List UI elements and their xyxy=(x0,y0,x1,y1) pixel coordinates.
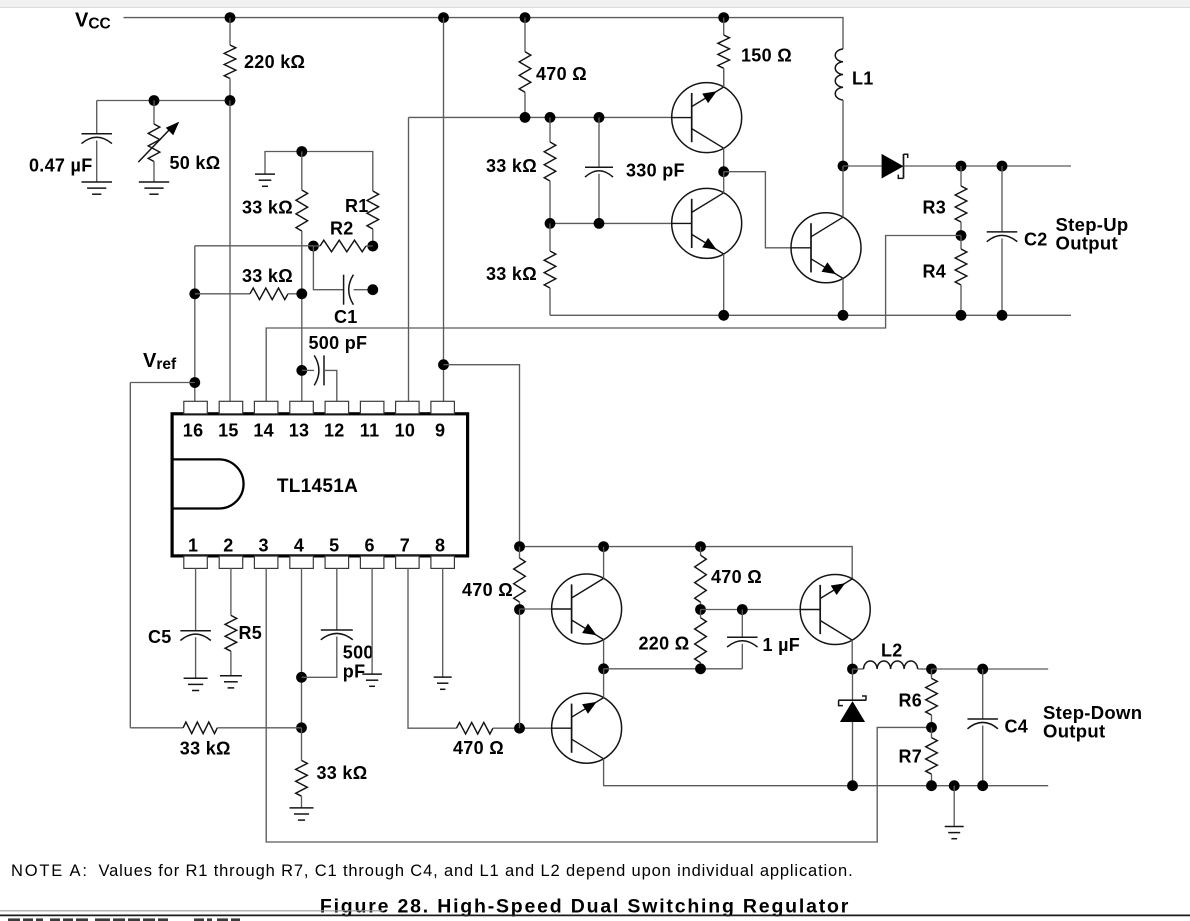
inductor L1 xyxy=(835,49,843,100)
junction Vref xyxy=(189,377,200,388)
wire R6 bottom lead xyxy=(931,715,933,727)
resistor R1 xyxy=(367,191,379,229)
junction on VCC at 220k xyxy=(225,12,236,23)
wire C1 right lead xyxy=(354,289,373,291)
wire C5 to ground xyxy=(195,637,197,678)
wire ground stub step-down xyxy=(953,786,955,826)
svg-text:C1: C1 xyxy=(334,307,358,327)
wire step-down top rail xyxy=(520,547,853,579)
junction pin4/500pF xyxy=(296,672,307,683)
svg-text:470 Ω: 470 Ω xyxy=(711,567,762,587)
svg-text:7: 7 xyxy=(400,536,410,556)
wire R7 bottom lead xyxy=(931,774,933,786)
svg-text:220 Ω: 220 Ω xyxy=(639,634,690,654)
wire R3 top lead xyxy=(960,166,962,186)
wire Q1 emitter stub xyxy=(723,68,725,87)
svg-text:330 pF: 330 pF xyxy=(626,161,685,181)
wire 470L top lead xyxy=(519,547,521,558)
svg-text:15: 15 xyxy=(218,421,239,441)
svg-text:C5: C5 xyxy=(148,627,172,647)
label 220 Ohm xyxy=(639,634,690,654)
junction 500pF upper left xyxy=(296,365,307,376)
wire 50k to ground xyxy=(153,162,155,183)
label 470 Ohm left vertical xyxy=(462,580,513,600)
resistor 33 kOhm horizontal xyxy=(250,288,288,300)
wire 33k horiz left stub xyxy=(195,293,250,295)
junction rail x519 xyxy=(514,541,525,552)
wire pin4 riser xyxy=(301,568,303,727)
figure caption xyxy=(320,895,850,917)
junction R2 right xyxy=(367,241,378,252)
wire Q3 collector stub xyxy=(842,166,844,217)
junction 470-2 bottom xyxy=(695,604,706,615)
resistor 470 Ohm left vertical xyxy=(514,558,526,602)
label 33 kOhm left column xyxy=(242,198,293,218)
wire 33k upper top lead xyxy=(549,117,551,142)
wire ground link to R1 top xyxy=(265,152,373,192)
wire pin5 riser xyxy=(336,568,338,630)
wire pin9 riser xyxy=(443,18,445,402)
wire C4 top lead xyxy=(982,669,984,719)
wire R2 right stub xyxy=(366,245,373,247)
resistor R5 xyxy=(225,615,237,651)
label 33 kOhm bottom-left xyxy=(180,739,231,759)
svg-text:2: 2 xyxy=(223,536,233,556)
inductor L2 xyxy=(864,661,918,669)
IC bottom pin numbers xyxy=(188,536,445,556)
junction R3 top xyxy=(956,161,967,172)
wire pin3 riser and feedback to R6R7 xyxy=(266,568,931,842)
ground step-down output xyxy=(945,827,964,839)
ground below pin8 xyxy=(434,677,452,689)
svg-text:8: 8 xyxy=(435,536,445,556)
wire 500pF upper right lead xyxy=(324,370,337,401)
IC bottom pin boxes xyxy=(184,556,455,568)
label 330 pF xyxy=(626,161,685,181)
junction T4 emitter node xyxy=(598,663,609,674)
junction rail C2 xyxy=(997,310,1008,321)
junction C1 right xyxy=(367,284,378,295)
junction 33k col top xyxy=(296,146,307,157)
svg-text:Vref: Vref xyxy=(143,350,177,373)
resistor 33 kOhm bottom-left xyxy=(183,722,217,734)
junction 330pF / line117 xyxy=(594,112,605,123)
wire Q1 collector to node xyxy=(723,148,725,172)
capacitor C1 xyxy=(344,275,354,305)
wire 33k horiz right stub xyxy=(288,293,302,295)
wire 1uF top lead xyxy=(741,610,743,638)
svg-text:3: 3 xyxy=(259,536,269,556)
label L1 xyxy=(852,69,874,89)
wire Q1Q2 node to Q3 base xyxy=(724,172,791,248)
svg-text:9: 9 xyxy=(435,421,445,441)
resistor 33 kOhm lower xyxy=(544,251,556,288)
transistor T6 xyxy=(800,575,870,645)
net label VCC xyxy=(75,10,111,33)
wire Q3 emitter to rail xyxy=(842,278,844,315)
clipped next-line text fragments xyxy=(8,918,240,921)
resistor R2 xyxy=(320,240,366,252)
ground below 0.47uF xyxy=(82,182,113,194)
wire 220 top lead xyxy=(700,610,702,618)
wire 50k top lead xyxy=(153,101,155,125)
svg-text:33 kΩ: 33 kΩ xyxy=(486,264,537,284)
resistor 470 Ohm mid vertical xyxy=(695,555,707,602)
svg-text:500: 500 xyxy=(343,643,374,663)
label R3 xyxy=(923,198,947,218)
junction bottom rail C4 xyxy=(977,780,988,791)
resistor R7 xyxy=(926,738,938,775)
wire pin6 riser xyxy=(371,568,373,673)
label 0.47 uF xyxy=(29,156,93,176)
ground upper-left xyxy=(255,174,275,186)
svg-text:33 kΩ: 33 kΩ xyxy=(242,198,293,218)
capacitor C5 xyxy=(180,631,211,641)
wire C4 bottom lead xyxy=(982,726,984,786)
transistor Q2 xyxy=(672,188,742,258)
wire R5 to ground xyxy=(230,651,232,676)
junction rail Q3 emitter xyxy=(838,310,849,321)
wire step-up bottom rail xyxy=(550,314,1071,316)
svg-text:R5: R5 xyxy=(239,623,263,643)
label 1 uF xyxy=(763,635,801,655)
junction R2 left xyxy=(308,241,319,252)
wire R1 bottom lead xyxy=(372,229,374,246)
wire 150ohm to Q1 xyxy=(723,68,725,87)
wire T4 collector stub xyxy=(603,547,605,579)
svg-text:R3: R3 xyxy=(923,198,947,218)
wire 33k upper bottom lead xyxy=(549,181,551,223)
svg-text:R1: R1 xyxy=(345,196,369,216)
svg-text:10: 10 xyxy=(395,421,416,441)
capacitor C4 xyxy=(967,719,998,729)
svg-text:33 kΩ: 33 kΩ xyxy=(317,763,368,783)
ground below pin6 xyxy=(362,674,382,686)
junction 1uF top xyxy=(737,604,748,615)
label 33 kOhm lower xyxy=(486,264,537,284)
label C1 xyxy=(334,307,358,327)
svg-text:50 kΩ: 50 kΩ xyxy=(170,153,221,173)
wire 470-2 top lead xyxy=(700,547,702,556)
svg-text:1: 1 xyxy=(188,536,198,556)
junction L2 right node xyxy=(926,664,937,675)
wire 500pF lower to pin4 node xyxy=(302,637,337,678)
label R1 xyxy=(345,196,369,216)
net label Vref xyxy=(143,350,177,373)
wire left riser to 33k xyxy=(129,383,131,728)
wire VCC rail xyxy=(124,18,844,49)
svg-text:33 kΩ: 33 kΩ xyxy=(242,266,293,286)
svg-text:Figure 28. High-Speed Dual Swi: Figure 28. High-Speed Dual Switching Reg… xyxy=(320,895,850,917)
wire 330pF bottom lead xyxy=(598,174,600,224)
svg-text:1 µF: 1 µF xyxy=(763,635,801,655)
wire D2 anode lead xyxy=(852,722,854,786)
junction 33k horiz left xyxy=(189,288,200,299)
wire 1uF bottom lead xyxy=(741,644,743,669)
wire pin8 riser xyxy=(442,568,444,676)
diode D2 (schottky catch) xyxy=(838,696,866,722)
wire T6 base line xyxy=(701,609,801,611)
junction 470ohm / line117 xyxy=(520,112,531,123)
svg-text:13: 13 xyxy=(289,421,310,441)
junction bottom rail R7 xyxy=(926,780,937,791)
svg-text:5: 5 xyxy=(329,536,339,556)
resistor 470 Ohm top xyxy=(519,52,531,93)
junction on VCC at 150ohm xyxy=(718,12,729,23)
label 500 pF upper xyxy=(309,333,368,353)
junction L2 left node xyxy=(847,664,858,675)
label TL1451A xyxy=(277,476,358,497)
wire diode D1 anode lead xyxy=(843,165,882,167)
label C4 xyxy=(1005,717,1029,737)
transistor T5 xyxy=(552,693,622,763)
wire C2 bottom lead xyxy=(1001,239,1003,316)
label C5 xyxy=(148,627,172,647)
capacitor 0.47 uF xyxy=(81,134,112,144)
label 220 kOhm xyxy=(244,52,305,72)
junction at 50k top xyxy=(149,95,160,106)
resistor 220 Ohm xyxy=(695,618,707,663)
svg-text:16: 16 xyxy=(183,421,204,441)
svg-text:R7: R7 xyxy=(899,747,923,767)
svg-text:470 Ω: 470 Ω xyxy=(453,738,504,758)
wire C1 left lead xyxy=(313,246,343,290)
wire D2 cathode lead xyxy=(852,669,854,700)
ground below C5 xyxy=(184,678,208,690)
wire pin15 riser xyxy=(229,101,231,402)
svg-text:L2: L2 xyxy=(881,641,903,661)
resistor 33 kOhm left column xyxy=(296,190,308,231)
wire pin10 riser xyxy=(408,117,410,401)
svg-text:VCC: VCC xyxy=(75,10,111,33)
wire 220k top lead xyxy=(229,18,231,45)
wire R2 left stub xyxy=(313,245,320,247)
svg-text:NOTE A:: NOTE A: xyxy=(11,862,89,880)
wire R3 bottom lead xyxy=(960,222,962,236)
wire pin1 riser xyxy=(195,568,197,630)
wire Q2 collector stub xyxy=(723,172,725,193)
resistor R3 xyxy=(955,186,967,222)
label R7 xyxy=(899,747,923,767)
wire 0.47uF to ground xyxy=(96,141,98,183)
top page band xyxy=(0,0,1190,8)
wire 33k bottom-left right stub xyxy=(217,727,301,729)
junction on VCC at 470ohm xyxy=(520,12,531,23)
wire 470L bottom lead xyxy=(519,602,521,610)
wire Q2 emitter to rail xyxy=(723,254,725,315)
junction R3/R4 node xyxy=(956,230,967,241)
label 470 Ohm top xyxy=(536,64,587,84)
wire pin9 branch to step-down xyxy=(444,365,520,547)
wire 33k vert to ground xyxy=(301,796,303,807)
IC U1 notch xyxy=(172,459,243,508)
resistor 220 kOhm xyxy=(224,45,236,79)
wire R2 to pin16 column xyxy=(195,245,314,247)
svg-text:33 kΩ: 33 kΩ xyxy=(486,156,537,176)
junction C2 top xyxy=(997,161,1008,172)
junction rail Q2 emitter xyxy=(718,310,729,321)
wire 33k vert top lead xyxy=(301,728,303,761)
wire node row to 0.47uF xyxy=(97,100,230,102)
wire 470-2 bottom lead xyxy=(700,602,702,609)
junction at 220k bottom xyxy=(225,95,236,106)
wire 470 lower to T5 base xyxy=(493,727,552,729)
label R4 xyxy=(923,262,947,282)
junction 33k horiz right xyxy=(296,288,307,299)
transistor Q1 xyxy=(672,83,742,153)
label 150 Ohm xyxy=(741,46,792,66)
svg-text:14: 14 xyxy=(253,421,274,441)
svg-text:4: 4 xyxy=(294,536,304,556)
junction pin9 branch xyxy=(438,359,449,370)
junction 330pF bottom xyxy=(594,218,605,229)
svg-text:220 kΩ: 220 kΩ xyxy=(244,52,305,72)
svg-text:R4: R4 xyxy=(923,262,947,282)
wire T4 emitter stub xyxy=(603,640,605,669)
junction rail T4 collector xyxy=(598,541,609,552)
label 470 Ohm lower horizontal xyxy=(453,738,504,758)
svg-text:Output: Output xyxy=(1043,721,1105,742)
label R6 xyxy=(899,691,923,711)
svg-text:33 kΩ: 33 kΩ xyxy=(180,739,231,759)
svg-text:11: 11 xyxy=(360,421,380,441)
wire error amp line y117 xyxy=(409,116,672,118)
wire pin13 column xyxy=(301,231,303,401)
resistor R4 xyxy=(955,249,967,285)
svg-text:470 Ω: 470 Ω xyxy=(462,580,513,600)
svg-text:470 Ω: 470 Ω xyxy=(536,64,587,84)
svg-text:L1: L1 xyxy=(852,69,874,89)
wire q2 base line y223 xyxy=(550,222,672,224)
svg-text:pF: pF xyxy=(343,662,366,682)
resistor R6 xyxy=(926,678,938,715)
wire 33k left col top lead xyxy=(301,152,303,191)
svg-text:500 pF: 500 pF xyxy=(309,333,368,353)
junction bottom rail ground xyxy=(949,780,960,791)
transistor T4 xyxy=(552,574,622,644)
wire L1 bottom lead xyxy=(842,100,844,166)
junction C4 top xyxy=(977,664,988,675)
label Step-Down Output xyxy=(1043,702,1142,742)
label C2 xyxy=(1024,230,1048,250)
wire 470ohm top lead xyxy=(524,18,526,52)
wire R7 top lead xyxy=(931,727,933,737)
label L2 xyxy=(881,641,903,661)
junction 33k lower top xyxy=(545,218,556,229)
transistor Q3 xyxy=(791,213,861,283)
junction rail R4 xyxy=(956,310,967,321)
svg-text:R6: R6 xyxy=(899,691,923,711)
label 33 kOhm bottom vertical xyxy=(317,763,368,783)
wire left column to T5 base xyxy=(519,610,521,729)
junction pin4/33k node xyxy=(296,722,307,733)
wire step-up output line xyxy=(904,165,1072,167)
svg-text:Values for R1 through R7, C1 t: Values for R1 through R7, C1 through C4,… xyxy=(99,862,854,880)
svg-text:150 Ω: 150 Ω xyxy=(741,46,792,66)
ground below R5 xyxy=(220,676,242,688)
label 500 pF lower xyxy=(343,643,374,682)
junction R6R7 node xyxy=(926,722,937,733)
label 50 kOhm xyxy=(170,153,221,173)
capacitor C2 xyxy=(987,232,1018,242)
junction 220 bottom xyxy=(695,663,706,674)
svg-text:0.47 µF: 0.47 µF xyxy=(29,156,93,176)
junction L1 / Q3 collector / diode xyxy=(838,161,849,172)
wire 33k bottom-left left stub xyxy=(130,727,183,729)
label 470 Ohm mid xyxy=(711,567,762,587)
wire R6 top lead xyxy=(931,669,933,678)
wire T5 emitter to bottom rail xyxy=(604,759,1049,786)
capacitor 500 pF upper xyxy=(314,355,324,385)
svg-text:12: 12 xyxy=(324,421,345,441)
junction bottom rail D2 xyxy=(847,780,858,791)
label Step-Up Output xyxy=(1056,214,1129,254)
svg-text:C2: C2 xyxy=(1024,230,1048,250)
IC top pin numbers xyxy=(183,421,446,441)
capacitor 500 pF lower xyxy=(321,630,353,640)
note A text xyxy=(11,862,854,880)
label R2 xyxy=(330,219,354,239)
wire pin2 riser xyxy=(230,568,232,615)
resistor 470 Ohm lower horizontal xyxy=(457,722,493,734)
svg-text:R2: R2 xyxy=(330,219,354,239)
wire feedback R3R4 to pin14 xyxy=(266,236,961,402)
caption rule gray xyxy=(0,910,383,912)
junction Q1/Q2 node xyxy=(718,166,729,177)
wire 33k lower to rail xyxy=(549,288,551,315)
capacitor 1 uF xyxy=(727,637,758,647)
svg-text:TL1451A: TL1451A xyxy=(277,476,358,497)
wire 220 bottom lead xyxy=(700,663,702,669)
junction on VCC at pin9 riser xyxy=(438,12,449,23)
wire T6 emitter stub xyxy=(851,640,853,669)
wire pin7 riser to 470 xyxy=(408,568,457,728)
wire L2 left stub xyxy=(853,668,864,670)
IC U1 TL1451A body xyxy=(172,414,468,556)
wire 0.47uF top lead xyxy=(96,101,98,134)
wire 470ohm bottom lead xyxy=(524,92,526,117)
junction 33k / line117 xyxy=(545,112,556,123)
wire L2 right stub xyxy=(918,668,932,670)
resistor 150 Ohm xyxy=(718,35,730,68)
wire pin16 column xyxy=(194,246,196,401)
potentiometer 50 kOhm zigzag xyxy=(148,124,160,162)
ground below 33k vertical xyxy=(290,808,314,820)
wire R4 bottom lead xyxy=(960,285,962,315)
junction T4 base node xyxy=(514,604,525,615)
IC top pin boxes xyxy=(184,401,455,414)
ground below 50k xyxy=(139,182,169,194)
caption underline xyxy=(0,914,1190,916)
diode D1 (schottky) xyxy=(882,154,908,179)
label 33 kOhm horizontal xyxy=(242,266,293,286)
potentiometer 50 kOhm arrow xyxy=(138,122,179,163)
wire y668 line xyxy=(604,668,743,670)
wire T5 collector stub xyxy=(603,669,605,698)
wire R4 top lead xyxy=(960,236,962,250)
label R5 xyxy=(239,623,263,643)
wire 500pF upper left lead xyxy=(302,369,314,371)
junction T5 base node xyxy=(514,723,525,734)
svg-text:6: 6 xyxy=(364,536,374,556)
wire T4 base wire xyxy=(520,608,552,610)
svg-text:Output: Output xyxy=(1056,233,1118,254)
wire 330pF top lead xyxy=(598,117,600,167)
label 33 kOhm upper xyxy=(486,156,537,176)
junction rail 470-2 xyxy=(695,541,706,552)
wire 150ohm top lead xyxy=(723,18,725,35)
svg-text:C4: C4 xyxy=(1005,717,1029,737)
